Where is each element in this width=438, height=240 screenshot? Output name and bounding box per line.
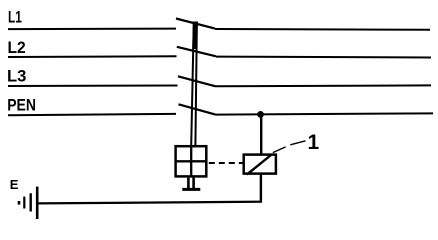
dashed mechanical coupling link — [209, 162, 243, 164]
wire L1 right segment — [215, 28, 430, 31]
switch blade pole L1 — [176, 19, 215, 29]
wire PEN tap down to contact unit — [260, 116, 262, 154]
wire PEN right segment — [216, 113, 434, 114]
leader line to label 1 — [273, 141, 306, 153]
contact unit 1 box — [244, 155, 276, 174]
wire L2 right segment — [216, 56, 431, 59]
wire L3 right segment — [216, 84, 432, 87]
svg-text:PEN: PEN — [7, 96, 36, 115]
earth electrode E — [19, 187, 37, 219]
switch blade pole PEN — [179, 104, 216, 114]
mechanical linkage shaft (double line) — [191, 22, 197, 146]
svg-text:1: 1 — [308, 131, 320, 154]
operating mechanism base bar — [182, 188, 200, 191]
wire L2 left segment — [8, 55, 177, 58]
switch blade pole L3 — [178, 76, 216, 86]
svg-text:L1: L1 — [8, 8, 22, 27]
svg-text:L2: L2 — [8, 38, 26, 57]
operating mechanism base stem (double line) — [188, 178, 193, 189]
contact unit 1 diagonal — [247, 155, 271, 175]
operating mechanism internal cross vertical — [190, 146, 192, 176]
wire earth conductor (bottom horizontal) — [38, 202, 263, 204]
junction node on PEN — [257, 111, 264, 118]
svg-text:E: E — [10, 177, 19, 192]
wire contact unit down to earth conductor — [260, 175, 262, 203]
svg-text:L3: L3 — [7, 66, 26, 85]
wire PEN left segment — [8, 114, 176, 115]
operating mechanism box — [176, 146, 207, 176]
operating mechanism internal cross horizontal — [176, 160, 207, 162]
wire L1 left segment — [8, 28, 176, 31]
wire L3 left segment — [8, 85, 178, 88]
switch blade pole L2 — [177, 47, 216, 57]
